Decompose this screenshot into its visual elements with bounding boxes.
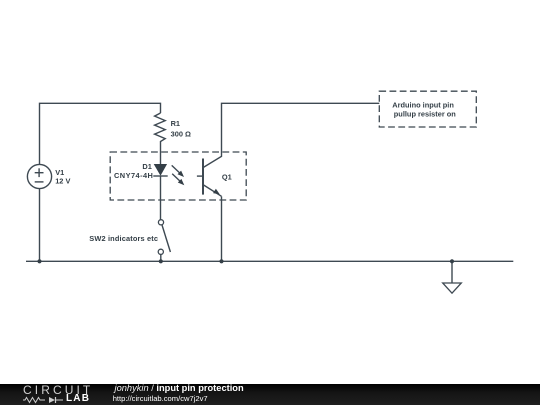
svg-text:R1: R1	[171, 119, 180, 128]
svg-text:D1: D1	[142, 162, 151, 171]
svg-text:Arduino input pin: Arduino input pin	[392, 100, 454, 109]
svg-text:CNY74-4H: CNY74-4H	[114, 171, 153, 180]
svg-text:300 Ω: 300 Ω	[171, 129, 191, 138]
svg-text:12 V: 12 V	[55, 176, 70, 185]
svg-text:Q1: Q1	[222, 172, 232, 181]
svg-text:SW2 indicators etc: SW2 indicators etc	[89, 234, 158, 243]
svg-text:pullup resister on: pullup resister on	[394, 109, 456, 118]
